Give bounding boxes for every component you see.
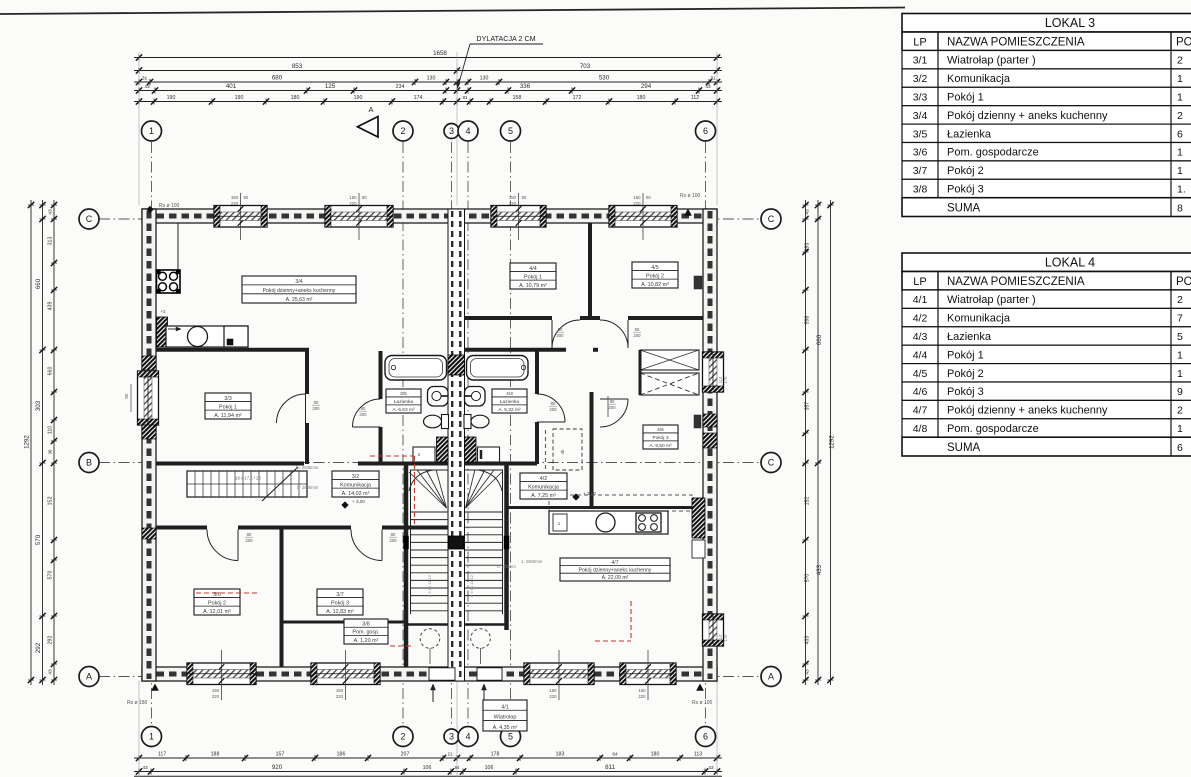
svg-text:Łazienka: Łazienka — [947, 128, 992, 140]
svg-text:150: 150 — [336, 688, 344, 693]
svg-text:3: 3 — [449, 126, 454, 136]
svg-text:LP: LP — [913, 276, 926, 288]
svg-text:1: 1 — [1177, 92, 1183, 104]
svg-text:6: 6 — [1177, 442, 1183, 454]
svg-text:A: A — [368, 105, 373, 114]
svg-text:5: 5 — [508, 126, 513, 136]
svg-text:43: 43 — [705, 84, 711, 90]
svg-text:220: 220 — [638, 694, 646, 699]
svg-text:2: 2 — [400, 126, 405, 136]
svg-text:21: 21 — [448, 752, 453, 757]
svg-text:433: 433 — [816, 564, 823, 575]
svg-text:8 9 10 11 12: 8 9 10 11 12 — [427, 574, 432, 597]
svg-text:106: 106 — [485, 765, 494, 771]
svg-text:150: 150 — [509, 195, 517, 200]
svg-text:80: 80 — [610, 399, 615, 404]
svg-text:4/1: 4/1 — [501, 704, 509, 710]
svg-text:220: 220 — [349, 201, 357, 206]
svg-text:90: 90 — [362, 195, 367, 200]
svg-text:660: 660 — [816, 334, 823, 345]
svg-text:5: 5 — [1177, 331, 1183, 343]
svg-text:2: 2 — [1177, 55, 1183, 67]
svg-text:4/7: 4/7 — [611, 560, 618, 566]
svg-text:4: 4 — [465, 732, 470, 742]
svg-text:Pokój 3: Pokój 3 — [653, 435, 669, 441]
svg-text:393: 393 — [805, 243, 811, 252]
svg-text:Pokój 3: Pokój 3 — [331, 600, 349, 606]
svg-text:16 x 17,2 / 28: 16 x 17,2 / 28 — [235, 476, 261, 481]
svg-text:81: 81 — [462, 95, 468, 100]
svg-text:292: 292 — [35, 642, 42, 653]
svg-text:Pokój 3: Pokój 3 — [947, 386, 984, 398]
svg-text:LOKAL 4: LOKAL 4 — [1045, 255, 1095, 269]
svg-text:B: B — [86, 458, 92, 468]
svg-text:DYLATACJA 2 CM: DYLATACJA 2 CM — [476, 34, 535, 43]
svg-text:920: 920 — [272, 764, 283, 771]
svg-text:6: 6 — [1177, 128, 1183, 140]
svg-text:3/2: 3/2 — [913, 73, 928, 85]
svg-text:A. 4,35 m²: A. 4,35 m² — [493, 725, 518, 731]
svg-text:200: 200 — [245, 538, 253, 543]
svg-text:80: 80 — [247, 532, 252, 537]
svg-text:Komunikacja: Komunikacja — [947, 73, 1011, 85]
svg-text:112: 112 — [691, 95, 699, 101]
svg-text:Pokój dzienny + aneks kuchenny: Pokój dzienny + aneks kuchenny — [947, 405, 1108, 417]
svg-text:3/5: 3/5 — [913, 128, 928, 140]
svg-text:43: 43 — [144, 84, 150, 90]
svg-text:Pokój 2: Pokój 2 — [947, 368, 984, 380]
svg-text:570: 570 — [805, 574, 811, 583]
svg-text:174: 174 — [414, 95, 423, 101]
svg-text:7: 7 — [1177, 313, 1183, 325]
svg-text:2: 2 — [1177, 294, 1183, 306]
svg-text:t= 200mm: t= 200mm — [497, 564, 516, 569]
svg-text:1: 1 — [149, 126, 154, 136]
svg-text:4/7: 4/7 — [913, 405, 928, 417]
svg-text:570: 570 — [35, 534, 42, 545]
svg-text:30: 30 — [48, 449, 53, 454]
svg-text:152: 152 — [48, 497, 54, 506]
svg-text:Rs ø 100: Rs ø 100 — [159, 203, 180, 209]
svg-text:A. 12,83 m²: A. 12,83 m² — [326, 609, 354, 615]
svg-text:5: 5 — [508, 732, 513, 742]
svg-text:200: 200 — [633, 333, 641, 338]
svg-text:Pokój 2: Pokój 2 — [646, 273, 664, 279]
svg-text:1: 1 — [149, 732, 154, 742]
svg-text:C: C — [768, 214, 775, 224]
svg-text:3/3: 3/3 — [913, 92, 928, 104]
svg-text:853: 853 — [292, 63, 303, 70]
svg-text:200: 200 — [556, 333, 564, 338]
svg-text:598: 598 — [805, 316, 811, 325]
svg-text:703: 703 — [580, 63, 591, 70]
svg-text:1292: 1292 — [24, 435, 31, 449]
svg-text:207: 207 — [401, 752, 410, 758]
svg-text:180: 180 — [637, 95, 646, 101]
svg-text:3/6: 3/6 — [913, 147, 928, 159]
svg-text:200: 200 — [359, 412, 367, 417]
svg-text:150: 150 — [231, 195, 239, 200]
svg-text:3/8: 3/8 — [362, 621, 370, 627]
svg-text:1: 1 — [1177, 165, 1183, 177]
svg-text:6: 6 — [703, 126, 708, 136]
svg-text:SUMA: SUMA — [947, 442, 981, 454]
svg-text:4/6: 4/6 — [657, 427, 664, 433]
svg-text:Wiatrołap (parter ): Wiatrołap (parter ) — [947, 55, 1036, 67]
svg-text:Wiatrołap (parter ): Wiatrołap (parter ) — [947, 294, 1036, 306]
svg-text:NAZWA POMIESZCZENIA: NAZWA POMIESZCZENIA — [947, 276, 1085, 288]
svg-text:3/7: 3/7 — [336, 592, 344, 598]
svg-text:4/3: 4/3 — [506, 391, 513, 397]
svg-text:3/7: 3/7 — [913, 165, 928, 177]
svg-text:A. 14,02 m²: A. 14,02 m² — [342, 491, 370, 497]
svg-text:220: 220 — [633, 201, 641, 206]
svg-text:1: 1 — [1177, 73, 1183, 85]
svg-text:220: 220 — [212, 694, 220, 699]
svg-text:106: 106 — [423, 765, 432, 771]
svg-text:Rs ø 100: Rs ø 100 — [692, 700, 713, 706]
svg-text:570: 570 — [48, 571, 54, 580]
svg-text:A. 6,63 m²: A. 6,63 m² — [392, 407, 415, 413]
svg-text:2: 2 — [1177, 110, 1183, 122]
svg-text:80: 80 — [551, 401, 556, 406]
svg-text:1: 1 — [1177, 368, 1183, 380]
svg-text:1: 1 — [1177, 423, 1183, 435]
svg-text:158: 158 — [513, 95, 522, 101]
svg-text:A. 10,82 m²: A. 10,82 m² — [641, 282, 669, 288]
svg-text:43: 43 — [805, 209, 811, 215]
svg-text:1: 1 — [1177, 147, 1183, 159]
svg-text:4/4: 4/4 — [529, 266, 537, 272]
svg-text:LOKAL 3: LOKAL 3 — [1045, 16, 1095, 30]
svg-text:150: 150 — [349, 195, 357, 200]
svg-text:150: 150 — [633, 195, 641, 200]
svg-text:4b: 4b — [560, 449, 565, 455]
svg-text:439: 439 — [48, 302, 54, 311]
svg-text:POWIERZCHN: POWIERZCHN — [1176, 276, 1191, 288]
svg-text:294: 294 — [641, 83, 652, 90]
svg-text:180: 180 — [291, 95, 300, 101]
svg-text:1658: 1658 — [433, 50, 447, 57]
svg-text:3/1: 3/1 — [913, 55, 928, 67]
svg-text:190: 190 — [235, 95, 244, 101]
svg-text:3/3: 3/3 — [224, 396, 232, 402]
svg-text:117: 117 — [158, 752, 166, 758]
svg-text:80: 80 — [558, 327, 563, 332]
svg-text:90: 90 — [124, 393, 129, 398]
svg-text:+ 3,00: + 3,00 — [352, 499, 365, 504]
svg-text:1292: 1292 — [829, 435, 836, 449]
svg-text:125: 125 — [325, 83, 336, 90]
svg-text:43: 43 — [142, 765, 148, 771]
svg-text:Łazienka: Łazienka — [394, 399, 414, 405]
svg-text:234: 234 — [396, 84, 405, 90]
svg-text:A. 12,01 m²: A. 12,01 m² — [203, 609, 231, 615]
svg-text:6: 6 — [703, 732, 708, 742]
svg-text:303: 303 — [35, 400, 42, 411]
svg-text:A. 1,20 m²: A. 1,20 m² — [354, 638, 379, 644]
svg-text:150: 150 — [212, 688, 220, 693]
svg-text:8: 8 — [1177, 202, 1183, 214]
svg-text:43: 43 — [48, 209, 54, 215]
svg-text:3/8: 3/8 — [913, 184, 928, 196]
svg-text:Pom. gosp.: Pom. gosp. — [352, 630, 379, 636]
svg-text:SUMA: SUMA — [947, 202, 981, 214]
svg-text:130: 130 — [480, 76, 489, 82]
svg-text:A. 10,79 m²: A. 10,79 m² — [519, 283, 547, 289]
svg-text:Wiatrołap: Wiatrołap — [494, 715, 517, 721]
svg-text:220: 220 — [231, 201, 239, 206]
svg-text:292: 292 — [48, 636, 54, 645]
svg-text:A. 5,32 m²: A. 5,32 m² — [498, 407, 521, 413]
svg-text:190: 190 — [354, 95, 363, 101]
svg-text:4/4: 4/4 — [913, 349, 928, 361]
svg-text:4/6: 4/6 — [913, 386, 928, 398]
svg-text:4: 4 — [465, 126, 470, 136]
svg-text:A: A — [86, 672, 92, 682]
svg-text:530: 530 — [599, 75, 610, 82]
svg-text:A. 11,94 m²: A. 11,94 m² — [214, 413, 242, 419]
svg-text:200: 200 — [608, 405, 616, 410]
svg-text:C: C — [768, 458, 775, 468]
svg-text:80: 80 — [391, 532, 396, 537]
svg-text:401: 401 — [226, 83, 237, 90]
svg-text:Pokój 1: Pokój 1 — [947, 349, 984, 361]
svg-text:3/2: 3/2 — [352, 474, 360, 480]
svg-text:200: 200 — [549, 407, 557, 412]
svg-text:157: 157 — [276, 752, 285, 758]
svg-text:84: 84 — [455, 765, 460, 770]
svg-text:3/4: 3/4 — [295, 279, 302, 285]
svg-text:A: A — [768, 672, 774, 682]
svg-text:433: 433 — [805, 636, 811, 645]
svg-text:220: 220 — [509, 201, 517, 206]
svg-text:2: 2 — [400, 732, 405, 742]
svg-text:4/5: 4/5 — [651, 265, 659, 271]
svg-text:80: 80 — [314, 400, 319, 405]
svg-text:90: 90 — [244, 195, 249, 200]
svg-text:336: 336 — [520, 83, 531, 90]
svg-text:190: 190 — [167, 95, 176, 101]
svg-text:43: 43 — [708, 765, 714, 771]
svg-text:1: 1 — [1177, 349, 1183, 361]
svg-text:2: 2 — [1177, 405, 1183, 417]
svg-text:811: 811 — [605, 764, 615, 771]
svg-text:150: 150 — [638, 688, 646, 693]
svg-text:3: 3 — [449, 732, 454, 742]
svg-text:8 9 10 11 12: 8 9 10 11 12 — [469, 574, 474, 597]
svg-text:186: 186 — [337, 752, 346, 758]
svg-text:A. 25,63 m²: A. 25,63 m² — [286, 297, 313, 303]
svg-text:Komunikacja: Komunikacja — [528, 484, 559, 490]
svg-text:220: 220 — [336, 694, 344, 699]
svg-text:180: 180 — [651, 752, 660, 758]
svg-text:Rs ø 100: Rs ø 100 — [680, 193, 701, 199]
svg-text:Pom. gospodarcze: Pom. gospodarcze — [947, 423, 1039, 435]
svg-text:4/2: 4/2 — [913, 313, 928, 325]
svg-text:1- 2600mm: 1- 2600mm — [521, 559, 543, 564]
svg-text:Pokój dzienny + aneks kuchenny: Pokój dzienny + aneks kuchenny — [947, 110, 1108, 122]
svg-text:152: 152 — [805, 497, 811, 506]
svg-text:4/5: 4/5 — [913, 368, 928, 380]
svg-text:200: 200 — [312, 406, 320, 411]
svg-text:Pokój dzienny+aneks kuchenny: Pokój dzienny+aneks kuchenny — [263, 288, 336, 294]
svg-text:b- 2800mm: b- 2800mm — [297, 485, 319, 490]
svg-text:Komunikacja: Komunikacja — [340, 482, 371, 488]
svg-text:170: 170 — [723, 376, 728, 384]
svg-text:64: 64 — [612, 752, 618, 758]
svg-text:660: 660 — [35, 278, 42, 289]
svg-text:A. 7,25 m²: A. 7,25 m² — [531, 493, 556, 499]
svg-text:Pokój 3: Pokój 3 — [947, 184, 984, 196]
svg-text:31: 31 — [710, 76, 716, 82]
svg-text:A. 22,09 m²: A. 22,09 m² — [602, 575, 629, 581]
svg-text:80: 80 — [635, 327, 640, 332]
svg-text:172: 172 — [573, 95, 582, 101]
svg-text:313: 313 — [48, 237, 54, 246]
svg-text:Pom. gospodarcze: Pom. gospodarcze — [947, 147, 1039, 159]
svg-text:183: 183 — [556, 752, 565, 758]
svg-text:200: 200 — [389, 538, 397, 543]
svg-text:Pokój 2: Pokój 2 — [208, 600, 226, 606]
svg-text:90: 90 — [522, 195, 527, 200]
svg-text:170: 170 — [723, 634, 728, 642]
svg-text:h= 2600mm: h= 2600mm — [296, 465, 319, 470]
svg-text:1.: 1. — [1177, 184, 1186, 196]
svg-text:Łazienka: Łazienka — [947, 331, 992, 343]
svg-text:Pokój 2: Pokój 2 — [947, 165, 984, 177]
svg-text:43: 43 — [48, 669, 54, 675]
svg-text:A. 9,50 m²: A. 9,50 m² — [649, 443, 672, 449]
svg-text:3/4: 3/4 — [913, 110, 928, 122]
svg-text:130: 130 — [427, 76, 436, 82]
svg-text:C: C — [86, 214, 93, 224]
svg-text:80: 80 — [361, 406, 366, 411]
svg-text:4/8: 4/8 — [913, 423, 928, 435]
svg-text:Rs ø 180: Rs ø 180 — [127, 700, 148, 706]
svg-text:+ 3,00: + 3,00 — [583, 491, 596, 496]
svg-text:4/1: 4/1 — [913, 294, 928, 306]
svg-text:Łazienka: Łazienka — [500, 399, 520, 405]
svg-text:31: 31 — [142, 76, 148, 82]
svg-text:Pokój dzienny+aneks kuchenny: Pokój dzienny+aneks kuchenny — [579, 567, 652, 573]
svg-text:110: 110 — [48, 426, 54, 434]
svg-text:357: 357 — [805, 402, 811, 411]
svg-text:LP: LP — [913, 36, 926, 48]
svg-text:150: 150 — [549, 688, 557, 693]
svg-text:4/2: 4/2 — [540, 476, 548, 482]
svg-text:680: 680 — [272, 75, 283, 82]
svg-text:Pokój 1: Pokój 1 — [219, 404, 237, 410]
svg-text:9: 9 — [1177, 386, 1183, 398]
svg-text:POWIERZCHN: POWIERZCHN — [1176, 36, 1191, 48]
svg-text:+3: +3 — [161, 309, 166, 314]
svg-text:4/3: 4/3 — [913, 331, 928, 343]
svg-text:Komunikacja: Komunikacja — [947, 313, 1011, 325]
svg-text:90: 90 — [646, 195, 651, 200]
svg-text:113: 113 — [694, 752, 702, 758]
svg-text:43: 43 — [805, 669, 811, 675]
svg-text:188: 188 — [211, 752, 220, 758]
svg-text:Pokój 1: Pokój 1 — [947, 92, 984, 104]
svg-text:Pokój 1: Pokój 1 — [524, 274, 542, 280]
svg-text:660: 660 — [48, 367, 54, 376]
svg-text:178: 178 — [491, 752, 500, 758]
svg-text:3/5: 3/5 — [400, 391, 407, 397]
svg-text:220: 220 — [549, 694, 557, 699]
svg-text:NAZWA POMIESZCZENIA: NAZWA POMIESZCZENIA — [947, 36, 1085, 48]
